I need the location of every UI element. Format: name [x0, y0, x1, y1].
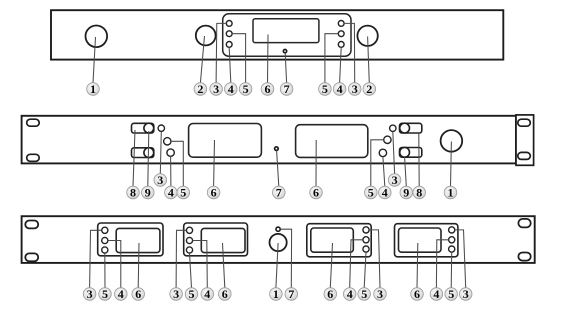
- callout 1b: [270, 287, 283, 301]
- module 1 button 4: [102, 237, 108, 243]
- svg-text:3: 3: [173, 287, 179, 301]
- leader to callout 4 (module2): [193, 241, 208, 288]
- button A3 right (top): [338, 21, 344, 27]
- button A4 left (bottom): [226, 42, 232, 48]
- svg-text:4: 4: [337, 82, 343, 96]
- leader to callout 3 (module1): [90, 230, 102, 287]
- leader to callout 6 left-mid (display): [213, 140, 216, 186]
- callout 6m: [207, 186, 220, 200]
- button B5 right: [384, 136, 391, 143]
- svg-text:7: 7: [284, 82, 290, 96]
- leader to callout 1 (knob C1): [276, 243, 278, 288]
- module 1 button 3: [102, 227, 108, 233]
- leader to callout 6 right-mid (display): [315, 140, 317, 186]
- module 2 button 5: [186, 247, 192, 253]
- indicator A7 (power dot): [283, 49, 286, 52]
- svg-text:4: 4: [228, 82, 234, 96]
- svg-text:8: 8: [130, 186, 136, 200]
- callout 7: [280, 82, 293, 96]
- leader to callout 6 (module1 display): [137, 243, 140, 288]
- callout 5b4: [445, 287, 458, 301]
- callout 4m: [165, 186, 178, 200]
- rack hole C bottom-left: [25, 253, 38, 261]
- svg-text:4: 4: [382, 186, 388, 200]
- switch B9 left-bottom button: [144, 148, 154, 158]
- svg-text:4: 4: [204, 287, 210, 301]
- svg-text:7: 7: [276, 186, 282, 200]
- leader to callout 5 (module3): [364, 252, 366, 288]
- callout 3b1: [83, 287, 96, 301]
- module 4 button 3: [449, 227, 455, 233]
- svg-text:1: 1: [90, 82, 96, 96]
- module 4 button 4: [449, 237, 455, 243]
- svg-text:6: 6: [414, 287, 420, 301]
- button A4 right (bottom): [338, 42, 344, 48]
- callout 2: [194, 82, 207, 96]
- module 3 button 3: [363, 227, 369, 233]
- module 4 bezel: [395, 224, 458, 257]
- leader to callout 5 (module2): [190, 253, 192, 288]
- leader to callout 3 right: [344, 23, 355, 82]
- callout 5r: [319, 82, 332, 96]
- svg-text:3: 3: [87, 287, 93, 301]
- indicator B7 (center dot): [275, 147, 279, 151]
- callout 6b3: [324, 287, 337, 301]
- button A3 left (top): [226, 21, 232, 27]
- leader to callout 4 (module4): [436, 240, 448, 288]
- callout 4b2: [201, 287, 214, 301]
- sub-panel bezel: [223, 14, 351, 56]
- leader to callout 3 (module2): [176, 230, 186, 287]
- button A5 right (middle): [338, 31, 344, 37]
- callout 6b1: [132, 287, 145, 301]
- rack hole B bottom-right: [518, 152, 531, 159]
- module 3 button 4: [363, 237, 369, 243]
- knob A2 (left channel knob): [196, 26, 216, 46]
- leader to callout 4 right: [340, 47, 342, 83]
- callout 6b2: [219, 287, 232, 301]
- button B5 left: [164, 138, 171, 145]
- leader to callout 9 left: [148, 131, 149, 186]
- leader to callout 5 left (middle button): [232, 34, 246, 83]
- svg-text:5: 5: [180, 186, 186, 200]
- module 1 display 6: [116, 228, 160, 252]
- svg-text:4: 4: [433, 287, 439, 301]
- callout 4r: [333, 82, 346, 96]
- svg-text:1: 1: [273, 287, 279, 301]
- callout 3b2: [170, 287, 183, 301]
- svg-text:5: 5: [322, 82, 328, 96]
- module 2 display 6: [201, 228, 245, 252]
- svg-text:5: 5: [102, 287, 108, 301]
- callout 3b4: [459, 287, 472, 301]
- svg-text:2: 2: [366, 82, 372, 96]
- callout 5mr: [365, 186, 378, 200]
- leader to callout 6 (display A6): [267, 35, 270, 83]
- rack hole C top-left: [25, 221, 38, 229]
- callout 3: [210, 82, 223, 96]
- leader to callout 4 left (bottom button): [229, 47, 231, 83]
- callout 5b1: [99, 287, 112, 301]
- leader to callout 1 mid (knob): [450, 142, 453, 187]
- callout 3mr raised: [388, 173, 401, 187]
- callout 1: [87, 82, 100, 96]
- leader to callout 6 (module2 display): [223, 243, 225, 288]
- leader to callout 3 (module4): [455, 230, 466, 288]
- leader to callout 5 (module4): [450, 252, 453, 288]
- svg-text:8: 8: [416, 186, 422, 200]
- callout 7b: [285, 287, 298, 301]
- display B6 right: [296, 125, 368, 158]
- rack hole B top-right: [518, 119, 531, 126]
- svg-text:1: 1: [448, 186, 454, 200]
- callout 3r: [348, 82, 361, 96]
- callout 3m raised: [154, 173, 167, 187]
- module 2 button 4: [186, 237, 192, 243]
- module 3 display 6: [311, 228, 354, 252]
- rack hole B top-left: [27, 119, 40, 126]
- svg-text:6: 6: [313, 186, 319, 200]
- callout 6: [261, 82, 274, 96]
- callout 2r: [363, 82, 376, 96]
- leader to callout 3 (module3): [369, 230, 380, 288]
- knob B1: [441, 130, 463, 152]
- switch B8 right-bottom body: [400, 148, 422, 158]
- callout 4b4: [430, 287, 443, 301]
- switch B8 right-top body: [400, 123, 422, 133]
- button B3 right: [390, 125, 396, 131]
- panel C outline: [22, 216, 535, 263]
- svg-text:4: 4: [347, 287, 353, 301]
- svg-text:9: 9: [145, 186, 151, 200]
- switch B8 left-top body: [132, 123, 154, 133]
- switch B9 left-top button: [144, 123, 154, 133]
- knob A1 (left volume knob): [86, 26, 108, 48]
- panel A outline: [51, 10, 503, 59]
- display B6 left: [189, 124, 262, 158]
- module 2 bezel: [184, 223, 248, 256]
- svg-text:3: 3: [157, 173, 163, 187]
- leader to callout 5 left-mid: [171, 141, 183, 186]
- leader to callout 5 (module1): [104, 253, 106, 288]
- callout 4b1: [115, 287, 128, 301]
- callout 5m: [177, 186, 190, 200]
- module 3 bezel: [307, 224, 371, 257]
- callout 8: [127, 186, 140, 200]
- svg-text:6: 6: [265, 82, 271, 96]
- leader to callout 4 (module1): [108, 241, 121, 288]
- leader to callout 2 right: [368, 37, 370, 83]
- module 1 button 5: [102, 247, 108, 253]
- svg-text:4: 4: [168, 186, 174, 200]
- callout 4: [225, 82, 238, 96]
- svg-text:5: 5: [361, 287, 367, 301]
- callout 7m: [273, 186, 286, 200]
- svg-text:6: 6: [211, 186, 217, 200]
- leader to callout 3 right-mid: [393, 132, 395, 174]
- leader to callout 1 (knob A1): [93, 37, 96, 83]
- button B3 left: [158, 125, 164, 131]
- module 1 bezel: [98, 223, 163, 256]
- leader to callout 4 (module3): [350, 240, 363, 288]
- module 4 display 6: [399, 228, 442, 252]
- leader to callout 8 left: [133, 130, 135, 186]
- leader to callout 4 right-mid: [383, 157, 385, 187]
- switch B9 right-top button: [400, 123, 410, 133]
- svg-text:6: 6: [222, 287, 228, 301]
- svg-text:4: 4: [118, 287, 124, 301]
- indicator C7 (center dot): [276, 227, 280, 231]
- module 2 button 3: [186, 227, 192, 233]
- callout 8mr: [413, 186, 426, 200]
- leader to callout 6 (module3 display): [330, 243, 332, 288]
- svg-text:6: 6: [327, 287, 333, 301]
- button A5 left (middle): [226, 31, 232, 37]
- leader to callout 7 mid (dot): [277, 150, 279, 186]
- leader to callout 5 right-mid: [371, 140, 384, 186]
- svg-text:3: 3: [463, 287, 469, 301]
- leader to callout 7 (dot C7): [280, 229, 291, 288]
- callout 6b4: [411, 287, 424, 301]
- callout 5b3: [358, 287, 371, 301]
- svg-text:5: 5: [243, 82, 249, 96]
- display A6: [253, 19, 319, 43]
- leader to callout 3 left (top button): [216, 23, 226, 82]
- callout 6mr: [310, 186, 323, 200]
- callout 1m: [444, 186, 457, 200]
- panel B right rack ear: [516, 115, 534, 165]
- svg-text:5: 5: [189, 287, 195, 301]
- callout 9mr: [400, 186, 413, 200]
- leader to callout 3 left-mid: [160, 131, 161, 173]
- leader to callout 4 left-mid: [170, 156, 172, 186]
- module 3 button 5: [363, 246, 369, 252]
- leader to callout 8 right: [418, 133, 420, 186]
- rack hole B bottom-left: [27, 154, 40, 161]
- svg-text:9: 9: [403, 186, 409, 200]
- callout 4b3: [343, 287, 356, 301]
- svg-text:5: 5: [448, 287, 454, 301]
- knob C1 (center): [270, 234, 287, 251]
- rack hole C top-right: [518, 219, 530, 228]
- callout 9: [142, 186, 155, 200]
- button B4 left: [167, 149, 174, 156]
- leader to callout 6 (module4 display): [416, 243, 419, 288]
- callout 3b3: [374, 287, 387, 301]
- svg-text:5: 5: [368, 186, 374, 200]
- switch B9 right-bottom button: [400, 147, 410, 157]
- svg-text:3: 3: [213, 82, 219, 96]
- svg-text:3: 3: [352, 82, 358, 96]
- switch B8 left-bottom body: [132, 148, 154, 158]
- callout 5: [239, 82, 252, 96]
- panel B outline: [22, 116, 516, 164]
- leader to callout 2 left (knob A2): [200, 36, 204, 83]
- callout 5b2: [185, 287, 198, 301]
- callout 4mr: [379, 186, 392, 200]
- leader to callout 9 right: [405, 157, 407, 186]
- button B4 right: [379, 149, 386, 156]
- leader to callout 5 right: [325, 34, 338, 83]
- rack hole C bottom-right: [518, 253, 530, 261]
- svg-text:3: 3: [392, 173, 398, 187]
- knob A2 right: [357, 26, 377, 46]
- svg-text:2: 2: [197, 82, 203, 96]
- module 4 button 5: [449, 246, 455, 252]
- svg-text:6: 6: [135, 287, 141, 301]
- leader to callout 7 (dot A7): [285, 53, 286, 83]
- svg-text:3: 3: [377, 287, 383, 301]
- svg-text:7: 7: [288, 287, 294, 301]
